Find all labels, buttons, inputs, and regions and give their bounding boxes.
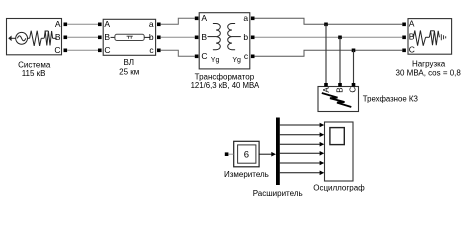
svg-text:c: c (149, 45, 154, 55)
inductor LL (load) (429, 31, 445, 45)
junction node C (tap to fault) (352, 49, 356, 53)
primary winding (208, 24, 221, 50)
block Расширитель (demux bar) (276, 118, 280, 186)
wire tap A down to fault block (325, 24, 327, 83)
resistor RL (load) (413, 31, 429, 46)
svg-text:A: A (409, 19, 415, 29)
svg-text:C: C (201, 51, 207, 61)
svg-text:121/6,3 кВ, 40 МВА: 121/6,3 кВ, 40 МВА (191, 81, 260, 90)
port B of Трансформатор (195, 32, 208, 42)
svg-text:C: C (349, 87, 358, 93)
pi-section line icon (111, 34, 151, 40)
svg-text:Yg: Yg (211, 57, 220, 64)
block Осциллограф (scope) (325, 122, 354, 181)
block Нагрузка (load) (408, 19, 452, 55)
port A of Нагрузка (402, 19, 415, 29)
signal wire 3 to scope (280, 142, 325, 147)
block Система (three-phase source) (7, 19, 62, 55)
port a of ВЛ (149, 19, 161, 29)
port A of КЗ (top) (324, 83, 328, 87)
lightning bolt (322, 93, 352, 107)
port c of Трансформатор (244, 51, 255, 61)
svg-text:A: A (55, 19, 61, 29)
port b of Трансформатор (243, 32, 254, 42)
svg-text:A: A (201, 13, 207, 23)
port A of ВЛ (98, 19, 110, 29)
svg-text:C: C (104, 45, 110, 55)
wire B: Система to ВЛ (67, 36, 98, 38)
port C of Трансформатор (195, 51, 208, 61)
svg-text:c: c (244, 51, 249, 61)
port A of Система (55, 19, 67, 29)
signal wire 2 to scope (280, 132, 325, 137)
AC source V1 (arrow + sine circle) (8, 32, 29, 44)
svg-text:B: B (335, 87, 344, 92)
port A of Трансформатор (195, 13, 208, 23)
junction node A (tap to fault) (324, 23, 328, 27)
label Трансформатор 121/6,3 кВ, 40 МВА (191, 72, 260, 90)
wire a: Трансформатор to Нагрузка (steps down) (255, 18, 403, 24)
secondary winding (228, 24, 241, 50)
svg-text:A: A (104, 19, 110, 29)
port B of Система (55, 32, 67, 42)
label ВЛ 25 км (119, 58, 139, 77)
port C of Нагрузка (402, 45, 415, 55)
resistor Rs (source impedance) (30, 31, 44, 46)
block Трансформатор (199, 13, 250, 69)
svg-text:b: b (243, 32, 248, 42)
svg-text:25 км: 25 км (119, 68, 139, 77)
port B of КЗ (top) (338, 83, 342, 87)
port a of Трансформатор (243, 13, 254, 23)
svg-text:6: 6 (244, 149, 249, 160)
port C of ВЛ (98, 45, 111, 55)
wire tap B down to fault block (339, 37, 341, 83)
signal wire 5 to scope (280, 161, 325, 166)
svg-text:Измеритель: Измеритель (224, 170, 269, 179)
label Система 115 кВ (18, 60, 51, 78)
wire tap C down to fault block (353, 50, 355, 83)
junction node B (tap to fault) (338, 36, 342, 40)
block Трехфазное КЗ (three-phase fault) (318, 87, 359, 112)
svg-text:a: a (243, 13, 248, 23)
wire C: Система to ВЛ (67, 49, 98, 51)
block Измеритель (measurement) (234, 141, 259, 167)
svg-text:115 кВ: 115 кВ (22, 69, 46, 78)
signal wire 4 to scope (280, 151, 325, 156)
port c of ВЛ (149, 45, 160, 55)
port B of Нагрузка (402, 32, 415, 42)
svg-text:b: b (149, 32, 154, 42)
wire a: ВЛ to Трансформатор (steps up) (161, 18, 195, 24)
signal wire 6 to scope (280, 171, 325, 176)
svg-text:C: C (54, 45, 60, 55)
svg-text:Расширитель: Расширитель (253, 189, 303, 198)
wire c: ВЛ to Трансформатор (steps down) (161, 50, 195, 56)
wire A: Система to ВЛ (67, 23, 98, 25)
port b of ВЛ (149, 32, 161, 42)
svg-text:B: B (55, 32, 61, 42)
wire c: Трансформатор to Нагрузка (steps up) (255, 50, 403, 56)
block ВЛ (PI-section line) (103, 19, 155, 55)
svg-text:a: a (149, 19, 154, 29)
svg-text:Нагрузка: Нагрузка (412, 59, 446, 68)
unconnected input port of Измеритель (225, 152, 234, 156)
signal wire 1 to scope (280, 123, 325, 128)
svg-text:B: B (201, 32, 207, 42)
svg-text:ВЛ: ВЛ (124, 58, 135, 67)
wire Измеритель to Расширитель with arrowhead (259, 152, 277, 157)
wire b: Трансформатор to Нагрузка (255, 36, 403, 38)
inductor Ls (source impedance) (44, 31, 56, 46)
svg-text:B: B (104, 32, 110, 42)
label Нагрузка 30 МВА, cos = 0,8 (396, 59, 462, 77)
port B of ВЛ (98, 32, 110, 42)
svg-text:Yg: Yg (232, 57, 241, 64)
svg-text:C: C (409, 45, 415, 55)
svg-text:A: A (322, 87, 331, 93)
port C of КЗ (top) (352, 83, 356, 87)
wire b: ВЛ to Трансформатор (161, 36, 195, 38)
svg-text:Осциллограф: Осциллограф (313, 184, 365, 193)
svg-text:Трехфазное КЗ: Трехфазное КЗ (363, 95, 418, 104)
svg-text:30 МВА, cos = 0,8: 30 МВА, cos = 0,8 (396, 69, 462, 78)
port C of Система (54, 45, 67, 55)
